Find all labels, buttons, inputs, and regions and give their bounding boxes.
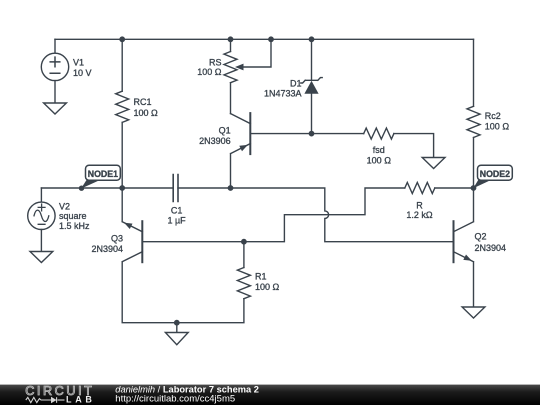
svg-text:Q2: Q2 [475, 231, 487, 241]
junction Q3 base / R1 [242, 240, 246, 244]
wire bottom (Q3 collector - ground - R1) [122, 262, 244, 323]
svg-text:10 V: 10 V [73, 68, 92, 78]
wire NODE1 rail right (C1 to corner, down with hop, to Q2 base) [178, 188, 453, 242]
wire Rc2 bottom to NODE2 junction to Q2 collector [473, 138, 475, 189]
RS wiper arrow [235, 64, 244, 71]
voltage source V1 10V [54, 39, 56, 53]
junction top rail at RC1 [120, 37, 124, 41]
ground below V1 [44, 103, 67, 114]
junction top rail at RS [228, 37, 232, 41]
potentiometer RS 100 ohm [230, 39, 232, 51]
resistor R 1.2 kohm [405, 183, 435, 194]
voltage source V2 square 1.5kHz [40, 188, 42, 202]
svg-text:Q1: Q1 [219, 126, 231, 136]
svg-text:R: R [416, 200, 423, 210]
junction bottom rail ground [175, 321, 179, 325]
svg-text:RC1: RC1 [134, 97, 152, 107]
ground bottom rail [176, 323, 178, 333]
svg-text:100 Ω: 100 Ω [134, 108, 159, 118]
wire Q1 base to D1 junction to fsd [251, 133, 363, 135]
resistor fsd 100 ohm [364, 128, 394, 139]
svg-text:2N3904: 2N3904 [475, 243, 507, 253]
footer logo resistor-diode glyph [26, 397, 65, 403]
ground below V2 [30, 252, 53, 263]
svg-text:NODE2: NODE2 [480, 169, 510, 179]
capacitor C1 1uF [173, 175, 178, 202]
svg-text:RS: RS [209, 58, 222, 68]
svg-text:Rc2: Rc2 [485, 111, 501, 121]
wire Q3 base to R1 junction and jog up [143, 188, 405, 242]
junction NODE1 at RC1/Q3 [120, 186, 124, 190]
resistor Rc2 100 ohm [473, 39, 475, 106]
wire NODE1 rail left (V2 to C1) [41, 187, 173, 189]
svg-text:LAB: LAB [66, 394, 96, 404]
resistor RC1 100 ohm [121, 39, 123, 91]
ground below Q2 [462, 307, 485, 318]
junction top rail at wiper [269, 37, 273, 41]
svg-text:100 Ω: 100 Ω [485, 122, 510, 132]
junction NODE1 at Q1 emitter [228, 186, 232, 190]
svg-text:2N3904: 2N3904 [91, 244, 123, 254]
junction D1/Q1 base/fsd [309, 131, 313, 135]
svg-text:fsd: fsd [373, 145, 385, 155]
svg-text:2N3906: 2N3906 [199, 136, 231, 146]
ground below fsd [422, 158, 445, 169]
svg-text:100 Ω: 100 Ω [197, 67, 222, 77]
node NODE2 flag [473, 180, 492, 189]
wire top supply rail [55, 38, 474, 40]
svg-text:R1: R1 [255, 272, 267, 282]
svg-text:100 Ω: 100 Ω [367, 155, 392, 165]
resistor R1 100 ohm [243, 242, 245, 268]
transistor Q1 2N3906 PNP [249, 113, 251, 154]
junction NODE2 [471, 186, 475, 190]
svg-text:1.2 kΩ: 1.2 kΩ [406, 210, 433, 220]
svg-text:1N4733A: 1N4733A [264, 88, 302, 98]
svg-text:1.5 kHz: 1.5 kHz [59, 221, 90, 231]
svg-text:V1: V1 [73, 57, 84, 67]
zener diode D1 1N4733A [311, 39, 313, 80]
svg-text:NODE1: NODE1 [88, 169, 118, 179]
svg-text:1 µF: 1 µF [167, 216, 186, 226]
svg-text:100 Ω: 100 Ω [255, 282, 280, 292]
node NODE1 flag [81, 180, 100, 189]
svg-text:C1: C1 [171, 205, 183, 215]
svg-text:square: square [59, 211, 87, 221]
svg-text:http://circuitlab.com/cc4j5m5: http://circuitlab.com/cc4j5m5 [115, 394, 235, 405]
transistor Q2 2N3904 NPN [453, 221, 455, 262]
svg-text:D1: D1 [290, 79, 302, 89]
wire fsd right lead to ground corner [394, 134, 434, 158]
junction top rail at D1 [309, 37, 313, 41]
transistor Q3 2N3904 NPN [141, 221, 143, 262]
wire R right lead to NODE2 [435, 187, 474, 189]
svg-text:Q3: Q3 [111, 234, 123, 244]
